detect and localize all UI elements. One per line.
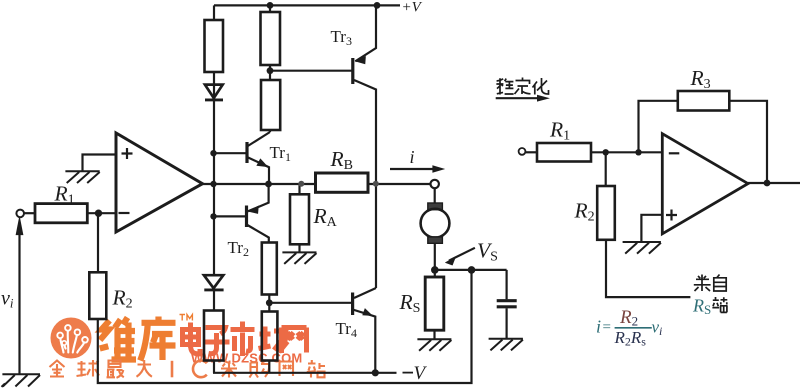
svg-text:WWW.DZSC.COM: WWW.DZSC.COM <box>191 351 302 366</box>
svg-text:Tr2: Tr2 <box>228 238 249 259</box>
svg-text:Tr4: Tr4 <box>336 319 357 340</box>
svg-text:VS: VS <box>477 239 498 265</box>
svg-text:vi: vi <box>652 318 663 339</box>
svg-text:R2: R2 <box>574 199 595 225</box>
svg-text:=: = <box>603 320 611 336</box>
svg-text:R1: R1 <box>549 118 570 144</box>
svg-text:RA: RA <box>313 204 338 230</box>
svg-text:i: i <box>596 317 601 337</box>
svg-text:Tr1: Tr1 <box>270 143 291 164</box>
svg-text:R1: R1 <box>54 182 75 208</box>
svg-text:RS: RS <box>399 290 421 316</box>
svg-text:Tr3: Tr3 <box>331 27 352 48</box>
svg-text:i: i <box>410 147 415 167</box>
svg-text:RB: RB <box>330 147 353 173</box>
svg-text:vi: vi <box>1 288 14 311</box>
svg-text:V: V <box>414 363 428 384</box>
svg-text:RS: RS <box>692 296 711 318</box>
svg-text:+V: +V <box>402 0 423 16</box>
svg-text:R2: R2 <box>619 307 638 329</box>
svg-text:R2Rs: R2Rs <box>614 328 647 349</box>
svg-text:R2: R2 <box>112 286 133 312</box>
svg-text:R3: R3 <box>690 66 711 92</box>
